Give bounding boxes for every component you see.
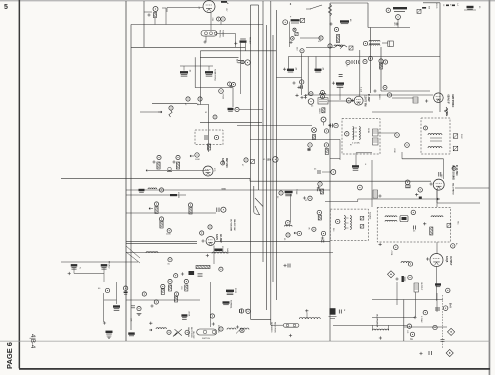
ref circle C17 — [379, 59, 383, 63]
capacitor C15b — [205, 71, 213, 76]
junction plus — [351, 99, 354, 102]
wire — [217, 33, 236, 35]
terminal T1 — [360, 216, 364, 220]
wire h y319 — [251, 318, 272, 320]
wire h y172 — [322, 171, 331, 173]
wire bus h y252 — [126, 252, 333, 254]
ref circle C24 — [321, 95, 325, 99]
ref circle C91a — [168, 279, 172, 283]
junction plus — [283, 68, 286, 71]
label B+A — [449, 303, 452, 308]
terminal J1 — [295, 32, 298, 35]
resistor R17 — [379, 63, 382, 69]
wire v x437b — [436, 189, 438, 203]
capacitor C109 — [71, 264, 78, 269]
coil OT a — [385, 216, 397, 217]
electrolytic block — [329, 308, 337, 318]
wire v x356 — [355, 153, 357, 166]
capacitor C42 — [331, 124, 333, 128]
arrow — [158, 111, 162, 113]
ref circle C41 — [321, 117, 326, 122]
svg-text:50/30: 50/30 — [222, 189, 226, 191]
ref circle C93 — [308, 196, 312, 200]
ref circle C29 — [198, 97, 202, 101]
wire curve x253 — [254, 212, 260, 215]
label 6AV6 — [215, 234, 218, 240]
label 470K — [390, 251, 392, 256]
ref circle C80 — [208, 225, 212, 229]
blob top — [221, 1, 227, 3]
junction plus — [295, 94, 298, 97]
label ON-OFF SW — [233, 219, 235, 231]
arrow — [294, 232, 297, 234]
ref circle C122b — [185, 330, 189, 334]
diag wire b — [126, 252, 140, 263]
terminal T2 — [360, 225, 364, 229]
label VU — [318, 41, 321, 43]
label 12 — [196, 103, 198, 106]
wire v x437 third — [436, 189, 438, 207]
label OC SPEAKER — [376, 314, 379, 328]
wire v x359 — [359, 50, 361, 96]
wire v x368 — [367, 3, 369, 28]
svg-text:SELENIUM: SELENIUM — [187, 327, 189, 338]
resistor R91a — [168, 285, 171, 291]
wire v x340 top — [339, 88, 341, 101]
junction plus — [425, 99, 428, 102]
capacitor C125 — [223, 301, 230, 304]
wire to trimmer — [382, 42, 388, 44]
ref circle C10 — [319, 36, 323, 40]
wire vertical x144 — [143, 1, 145, 47]
resistor R36 — [157, 162, 160, 169]
trimmer block — [388, 41, 394, 47]
capacitor C119 — [131, 306, 135, 308]
shield box det transformer — [330, 209, 368, 240]
dashed feed — [441, 295, 443, 349]
label 05 — [305, 200, 308, 202]
ref circle C120 — [137, 307, 141, 311]
svg-text:5: 5 — [4, 4, 8, 11]
label 240 — [296, 47, 298, 51]
svg-text:POWER: POWER — [217, 325, 219, 333]
ref circle C100 — [336, 219, 340, 223]
label DET AVC — [225, 158, 228, 168]
junction plus — [172, 160, 175, 163]
wire h y325 — [333, 324, 407, 326]
svg-text:1MEG: 1MEG — [318, 108, 320, 114]
capacitor C51 — [439, 172, 441, 177]
svg-text:OC SPEAKER: OC SPEAKER — [376, 314, 379, 328]
label A5 — [294, 68, 297, 71]
junction plus — [329, 22, 332, 25]
wire — [205, 36, 207, 42]
wire h y2.8 topright — [423, 2, 440, 4]
svg-text:PHONO: PHONO — [108, 261, 110, 269]
resistor R30 — [169, 110, 172, 117]
junction plus — [321, 236, 324, 239]
diag wire a — [126, 246, 140, 258]
label K — [365, 164, 367, 166]
wire jog — [249, 178, 251, 181]
capacitor C99 — [322, 240, 324, 243]
label 40115 — [435, 3, 437, 9]
wire bus h y190 — [126, 189, 330, 191]
junction plus — [419, 352, 422, 355]
ref circle C14 — [346, 60, 350, 64]
capacitor C110 — [101, 264, 108, 269]
shield box IFT2 — [421, 118, 450, 154]
ref circle C122 — [167, 330, 171, 334]
wire h y50 — [200, 50, 276, 52]
label 90 — [478, 6, 480, 9]
wire h y199 — [358, 198, 440, 200]
label 5 MC — [460, 134, 462, 139]
svg-text:6BJ6 SOUND: 6BJ6 SOUND — [452, 165, 455, 180]
wire bus v x250 — [250, 5, 252, 319]
label IF AMP — [367, 94, 370, 102]
svg-text:OC VOLUME: OC VOLUME — [230, 219, 232, 232]
svg-text:IF 10.7MC: IF 10.7MC — [455, 165, 457, 176]
label 42 — [184, 103, 186, 106]
wire v C112b — [116, 282, 118, 304]
junction plus — [379, 336, 382, 339]
capacitor C21 — [339, 75, 343, 77]
ground G2 — [137, 313, 142, 315]
svg-text:PAGE 6: PAGE 6 — [5, 342, 14, 369]
capacitor C32 — [228, 108, 234, 111]
wire v x214 — [213, 246, 215, 265]
wire h y109 — [239, 108, 263, 110]
svg-text:6AT6: 6AT6 — [221, 158, 224, 164]
label RECTIFIER — [190, 327, 192, 338]
capacitor C92 — [285, 191, 293, 196]
trimmer cap a — [352, 60, 355, 64]
page right edge line — [489, 0, 491, 375]
svg-text:470K: 470K — [390, 251, 392, 256]
wire v x443 — [443, 159, 445, 179]
ref circle C39b — [300, 80, 304, 84]
wire h y27 — [368, 27, 410, 29]
ref circle C79 — [200, 231, 204, 235]
wire v x370 — [370, 28, 372, 94]
label 12AT7 FM — [363, 95, 366, 106]
coil filter choke — [156, 328, 166, 329]
ref circle C39 — [308, 99, 314, 105]
wire corner h y5 — [251, 4, 259, 6]
resistor R37 — [176, 162, 179, 169]
label 3 top — [290, 2, 292, 6]
ref circle C12 — [300, 49, 304, 53]
svg-text:5 1/4: 5 1/4 — [359, 87, 361, 93]
junction plus — [283, 264, 286, 267]
resistor R75 — [189, 207, 192, 214]
ref circle C116 — [161, 284, 165, 288]
junction plus — [203, 40, 206, 43]
wire stub c a — [183, 66, 185, 71]
wire h y327 — [404, 326, 447, 328]
label 50/30 — [234, 288, 236, 294]
ref circle C54 — [452, 166, 456, 170]
label 6BJ6 SOUND — [452, 165, 455, 180]
wire h y122 — [200, 121, 262, 123]
label 1MEG — [318, 108, 320, 114]
wire v x195 — [194, 57, 196, 87]
label FM OSC — [219, 30, 221, 38]
svg-text:SWITCH: SWITCH — [202, 338, 210, 340]
vert coil C — [344, 216, 345, 230]
coil cathode — [446, 108, 447, 116]
ref circle C38 — [221, 161, 225, 165]
pill switch 2 — [283, 324, 299, 328]
ref circle C16 — [369, 57, 373, 61]
coil IFT1 top — [369, 40, 380, 41]
shield box output transformer — [377, 207, 450, 242]
page bottom border — [19, 368, 490, 370]
page left margin rule — [19, 0, 21, 368]
ref circle C34 — [214, 135, 218, 139]
arrow — [437, 198, 440, 200]
ref circle C25 — [386, 8, 390, 12]
capacitor FM ant — [240, 39, 247, 43]
label M — [205, 112, 207, 114]
label 2i — [80, 268, 82, 270]
selenium rectifier — [173, 329, 182, 336]
coil IFT1 bottom — [369, 44, 380, 45]
resistor R61 — [320, 189, 323, 194]
ref circle transformer — [219, 327, 223, 331]
wire v x200 — [199, 51, 201, 105]
ref circle C105 — [408, 262, 412, 266]
terminal T3 — [447, 224, 451, 228]
wire — [154, 18, 156, 25]
junction plus — [236, 325, 239, 328]
capacitor C102 — [414, 226, 416, 230]
wire — [346, 227, 349, 229]
wire h y152 — [356, 152, 372, 154]
junction plus — [289, 334, 292, 337]
cap under C53 — [419, 197, 422, 199]
wire bus h y181 right — [250, 180, 431, 182]
label 100K — [166, 234, 171, 236]
label PHONO — [108, 261, 110, 269]
none c — [343, 216, 345, 218]
coil heater row — [299, 318, 320, 320]
output trans box — [414, 283, 419, 292]
label A5 — [322, 68, 325, 71]
ref circle C117 — [174, 292, 178, 296]
svg-text:100K: 100K — [195, 159, 200, 161]
test point diamond TP2 — [448, 328, 455, 335]
junction plus — [297, 86, 300, 89]
ref circle C81 — [168, 258, 172, 262]
wire bus h y241c — [215, 240, 330, 242]
terminal box J2 — [349, 46, 353, 50]
ref circle C45 — [387, 93, 391, 97]
label 150 — [267, 159, 272, 162]
label 05 bus — [263, 159, 266, 161]
label 157 — [225, 8, 227, 12]
wire h y112 left — [140, 111, 162, 113]
wire v x415 bottom — [415, 292, 417, 317]
label 200/30 — [221, 246, 223, 253]
ref circle C44 — [383, 86, 387, 90]
junction plus — [229, 85, 232, 88]
padder cap ref C2 — [217, 17, 221, 21]
svg-text:4|B-4: 4|B-4 — [29, 334, 35, 349]
label 47 — [449, 4, 451, 7]
ref circle C73 — [159, 217, 163, 221]
capacitor C22 — [336, 82, 344, 87]
wire stub c b — [208, 66, 210, 71]
svg-text:TONE: TONE — [295, 189, 297, 195]
IFT2 core a — [430, 137, 442, 139]
svg-text:NORMAL: NORMAL — [230, 300, 233, 309]
junction plus — [307, 148, 310, 151]
ref circle C36 — [157, 155, 161, 159]
wire h y125 — [237, 125, 312, 127]
label IF 10.7MC — [455, 165, 457, 176]
wire v x210 — [209, 282, 211, 327]
label FM ANT — [249, 37, 252, 45]
cap small under C114 — [124, 292, 128, 295]
label 240M — [367, 128, 369, 133]
label 1B — [189, 70, 191, 73]
wire v x372 third — [371, 160, 373, 207]
wire bus h y178 left — [61, 177, 250, 179]
junction plus — [201, 239, 204, 242]
label AMP 455KC — [451, 94, 454, 108]
label A — [227, 2, 229, 5]
ref circle C47 — [395, 133, 400, 138]
wire h y262 left — [61, 261, 138, 263]
label RECTIFIER — [274, 322, 276, 333]
junction plus — [395, 277, 398, 280]
wire v x289 — [288, 22, 290, 47]
wire h y170 — [150, 169, 209, 171]
label 12 — [199, 6, 201, 9]
svg-text:40/450: 40/450 — [177, 192, 179, 199]
IF can small — [318, 98, 328, 104]
ref circle C28 — [186, 97, 190, 101]
none a — [330, 47, 331, 48]
wire h y38 — [300, 37, 321, 39]
label ON-OFF — [192, 331, 194, 339]
svg-text:50/30: 50/30 — [234, 288, 236, 294]
label DE-ENERG — [270, 322, 272, 333]
wire h y158 — [402, 158, 444, 160]
coil power b — [240, 328, 249, 330]
wire — [346, 217, 349, 219]
label A23 — [235, 59, 238, 63]
ref circle C52 — [405, 180, 410, 185]
wire v x167 — [166, 8, 168, 13]
wire v x288 — [287, 57, 289, 70]
resistor dropper vertical — [328, 4, 331, 16]
svg-text:B+A: B+A — [449, 303, 452, 308]
ref circle C104 — [451, 244, 455, 248]
ref circle C132 — [446, 288, 450, 292]
page label PAGE 6 — [5, 342, 14, 369]
junction plus — [415, 193, 418, 196]
ref circle C66 — [244, 158, 248, 162]
label B+ — [455, 243, 457, 246]
wire bus h y56.5 — [288, 56, 440, 58]
page number 5 — [4, 4, 8, 11]
ref circle C127 — [239, 309, 243, 313]
label IF — [349, 144, 351, 147]
ref circle C60 — [331, 170, 336, 175]
svg-text:MC: MC — [457, 222, 459, 226]
svg-text:5 1/4 MC: 5 1/4 MC — [352, 143, 361, 145]
junction plus — [234, 42, 237, 45]
ref circle C9 — [334, 27, 338, 31]
osc circle x2 — [236, 328, 244, 333]
resistor grid R1 — [153, 13, 156, 18]
ref circle C61 — [318, 182, 322, 186]
wire — [162, 7, 166, 9]
IF tube 12AT7 — [354, 96, 363, 105]
label 100K — [195, 159, 200, 161]
wire bus v x266 — [266, 25, 268, 310]
ref circle C49 — [424, 126, 428, 130]
ref circle C18 — [383, 60, 387, 64]
wire bus left vertical x126 — [125, 1, 127, 341]
wire h y300 left — [126, 299, 200, 301]
label 6.3VAC — [420, 316, 423, 323]
diag wire c — [255, 198, 263, 207]
arrow — [149, 329, 152, 331]
ref circle C6 — [283, 20, 288, 25]
label 546 — [332, 228, 334, 232]
ref circle C135 — [423, 310, 427, 314]
junction plus — [103, 321, 106, 324]
wire h y133 — [378, 132, 397, 134]
svg-text:5 MC: 5 MC — [460, 134, 462, 139]
svg-text:DET AVC: DET AVC — [225, 158, 228, 168]
wire h y203 — [437, 202, 480, 204]
ref circle C118 — [154, 300, 158, 304]
wire bus h y47 — [131, 46, 245, 48]
svg-text:IF AMP: IF AMP — [367, 94, 370, 102]
svg-text:FM ANT: FM ANT — [249, 37, 252, 45]
ref circle C95 — [286, 221, 291, 226]
ref circle C48 — [405, 143, 410, 148]
label 47000 — [222, 94, 224, 100]
junction plus — [152, 160, 155, 163]
ref circle C96 — [297, 231, 301, 235]
capacitor C121 — [181, 314, 187, 319]
wire bus h y241b — [126, 242, 197, 244]
wire h y317 — [372, 317, 415, 319]
resistor R102 — [430, 227, 433, 235]
cap far top right pair — [446, 5, 455, 7]
wire h y273 — [74, 272, 104, 274]
ref circle C16b — [232, 83, 236, 87]
hatchbox right — [413, 97, 418, 103]
wire v x437 to tube — [436, 242, 438, 254]
label 275 — [213, 168, 215, 172]
wire bus h y139 — [250, 139, 340, 141]
junction plus — [68, 272, 71, 275]
wire bus v x253 — [253, 186, 255, 212]
wire v x323 — [322, 122, 324, 126]
label F — [290, 17, 292, 19]
label 3MEG — [378, 94, 380, 100]
svg-text:6BA6 IF: 6BA6 IF — [447, 95, 450, 105]
label 50-30 — [222, 189, 226, 191]
terminal M1 — [453, 134, 458, 139]
